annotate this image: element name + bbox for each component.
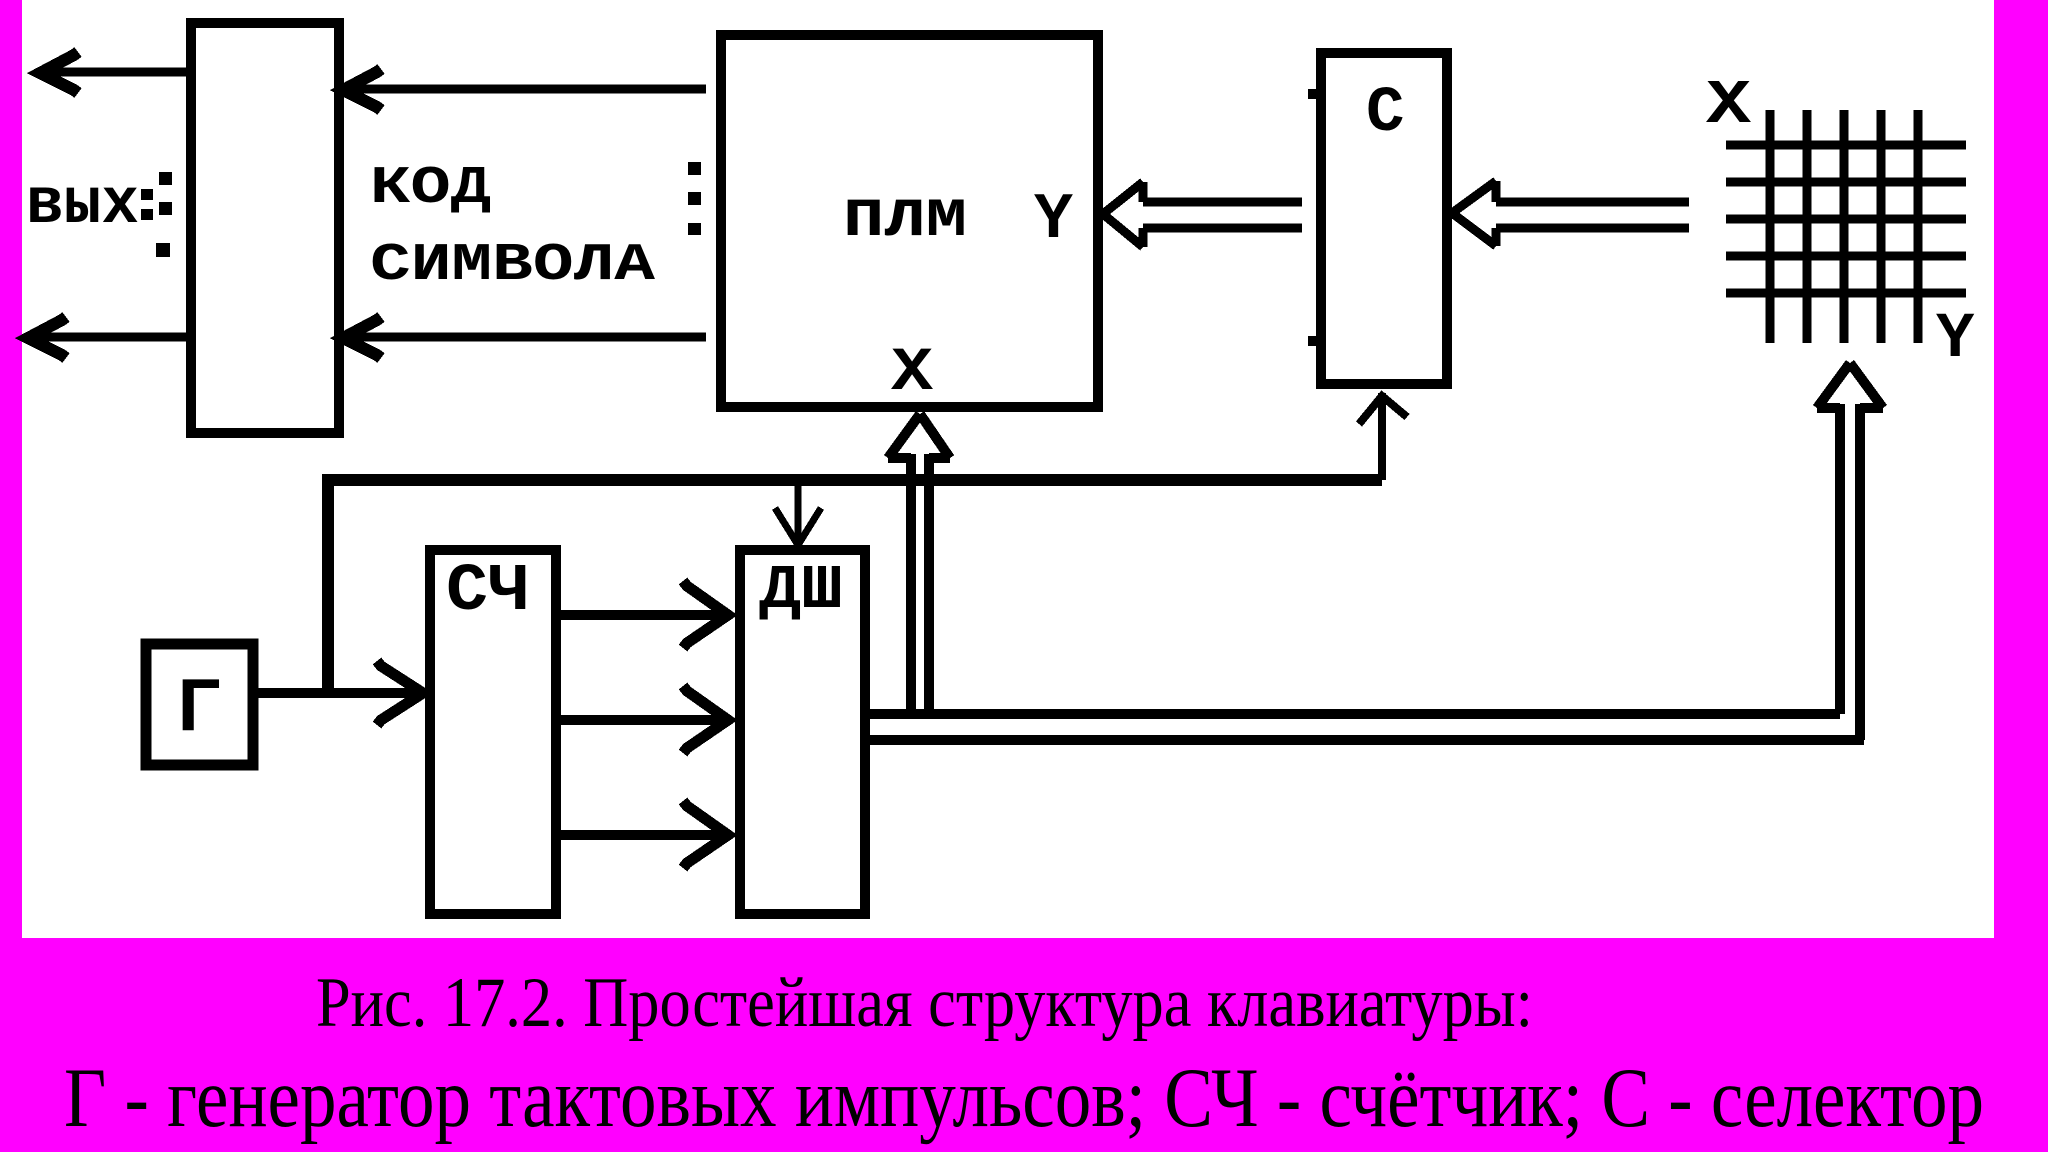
wire arrow out bottom-left xyxy=(30,333,191,342)
block ПЛМ U1 xyxy=(721,35,1098,407)
bus Y: С to ПЛМ, two shaft lines xyxy=(1143,198,1302,207)
svg-text:КОД: КОД xyxy=(370,158,491,218)
colon dots after вых xyxy=(141,189,153,200)
block ROM output (вых) xyxy=(191,23,339,433)
block СЧ counter xyxy=(430,550,556,914)
wire Г to СЧ xyxy=(258,688,420,698)
hollow arrowhead into matrix xyxy=(1817,363,1850,408)
wire СЧ to ДШ bit1 xyxy=(561,610,722,620)
white canvas xyxy=(22,0,1994,938)
feedback long wire to С xyxy=(322,474,1382,486)
feedback vertical into С bottom xyxy=(1378,393,1386,480)
bus: matrix to С, two shaft lines xyxy=(1496,198,1689,207)
wire arrow out top-left xyxy=(42,68,191,77)
pin stub on С left top xyxy=(1308,89,1318,99)
wire код bus bottom xyxy=(344,333,706,342)
wire down into ДШ top xyxy=(795,486,802,545)
feedback riser from Г wire xyxy=(322,475,334,693)
svg-text:СИМВОЛА: СИМВОЛА xyxy=(370,235,655,295)
ellipsis dots left of ПЛМ xyxy=(688,162,701,175)
hollow arrowhead into С xyxy=(1452,181,1496,213)
ellipsis dots left of вых block xyxy=(159,172,172,185)
wire СЧ to ДШ bit3 xyxy=(561,830,722,840)
svg-text:X: X xyxy=(1706,70,1752,141)
grid horizontal wires xyxy=(1726,141,1966,150)
pin stub on С left bottom xyxy=(1308,336,1318,346)
block Г generator xyxy=(146,644,253,765)
svg-text:Г: Г xyxy=(176,667,222,754)
svg-text:Рис. 17.2. Простейшая структур: Рис. 17.2. Простейшая структура клавиату… xyxy=(316,964,1533,1042)
hollow bus vertical shafts up to ПЛМ X xyxy=(906,454,916,714)
hollow bus: ДШ to matrix, horizontal pair xyxy=(865,709,1840,719)
keyboard matrix grid xyxy=(1726,110,1966,343)
svg-text:вых: вых xyxy=(26,168,139,242)
block ДШ decoder xyxy=(740,550,865,914)
svg-text:Y: Y xyxy=(1034,183,1073,257)
hollow arrowhead into ПЛМ Y xyxy=(1103,182,1143,214)
wire СЧ to ДШ bit2 xyxy=(561,715,722,725)
hollow bus vertical shafts up to matrix xyxy=(1835,404,1845,714)
svg-text:X: X xyxy=(891,339,933,408)
chevron arrowhead into С bottom xyxy=(1359,396,1407,424)
svg-text:ДШ: ДШ xyxy=(759,555,843,626)
svg-text:ПЛМ: ПЛМ xyxy=(843,191,967,252)
grid vertical wires xyxy=(1766,110,1775,343)
svg-text:Y: Y xyxy=(1936,304,1975,376)
block С selector xyxy=(1321,53,1447,384)
wire код bus top xyxy=(344,85,706,94)
svg-text:С: С xyxy=(1366,78,1404,150)
hollow arrowhead into ПЛМ X xyxy=(888,414,920,458)
svg-text:Г - генератор тактовых импульс: Г - генератор тактовых импульсов; СЧ - с… xyxy=(64,1051,1984,1145)
svg-text:СЧ: СЧ xyxy=(446,554,530,630)
